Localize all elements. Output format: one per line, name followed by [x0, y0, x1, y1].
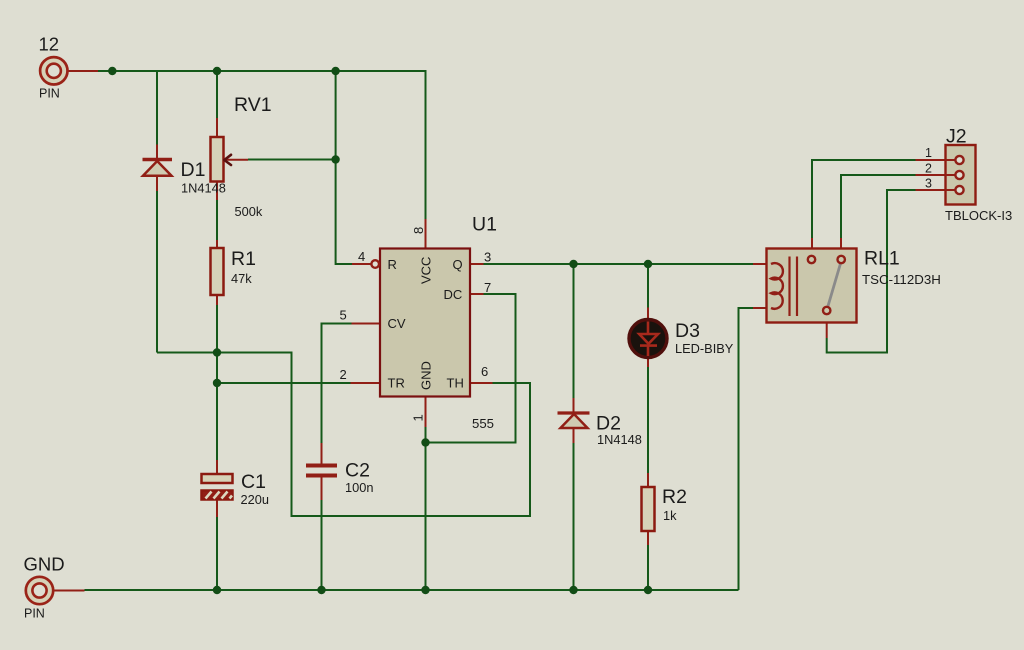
svg-text:GND: GND: [419, 361, 434, 390]
svg-text:TSC-112D3H: TSC-112D3H: [862, 272, 941, 287]
svg-text:12: 12: [39, 34, 60, 55]
svg-text:6: 6: [481, 364, 488, 379]
svg-text:220u: 220u: [241, 492, 269, 507]
svg-text:TH: TH: [447, 376, 464, 391]
svg-text:CV: CV: [388, 316, 406, 331]
svg-text:555: 555: [472, 416, 494, 431]
svg-text:VCC: VCC: [419, 257, 434, 284]
svg-text:1: 1: [411, 414, 426, 421]
svg-text:D1: D1: [181, 159, 206, 181]
svg-text:7: 7: [484, 280, 491, 295]
svg-text:Q: Q: [453, 257, 463, 272]
svg-text:LED-BIBY: LED-BIBY: [675, 341, 734, 356]
svg-text:D3: D3: [675, 320, 700, 342]
svg-text:TR: TR: [388, 376, 405, 391]
svg-text:1: 1: [925, 146, 932, 160]
svg-text:C1: C1: [241, 471, 266, 493]
svg-text:RV1: RV1: [234, 94, 272, 116]
svg-text:5: 5: [340, 308, 347, 323]
svg-text:8: 8: [411, 227, 426, 234]
svg-text:DC: DC: [444, 287, 463, 302]
svg-text:4: 4: [358, 249, 365, 264]
svg-text:3: 3: [925, 176, 932, 190]
svg-text:100n: 100n: [345, 480, 373, 495]
svg-text:C2: C2: [345, 460, 370, 482]
svg-text:47k: 47k: [231, 271, 252, 286]
svg-text:1N4148: 1N4148: [181, 181, 226, 196]
svg-text:R: R: [388, 257, 397, 272]
svg-text:U1: U1: [472, 214, 497, 236]
svg-text:PIN: PIN: [24, 607, 45, 621]
svg-text:TBLOCK-I3: TBLOCK-I3: [945, 208, 1012, 223]
svg-text:PIN: PIN: [39, 87, 60, 101]
svg-text:RL1: RL1: [864, 248, 900, 270]
svg-text:1N4148: 1N4148: [597, 432, 642, 447]
svg-text:1k: 1k: [663, 508, 677, 523]
svg-text:500k: 500k: [235, 204, 263, 219]
svg-text:R2: R2: [662, 486, 687, 508]
svg-text:R1: R1: [231, 248, 256, 270]
svg-text:J2: J2: [946, 126, 967, 148]
svg-text:GND: GND: [24, 554, 65, 575]
svg-text:2: 2: [340, 367, 347, 382]
svg-text:3: 3: [484, 250, 491, 265]
svg-text:2: 2: [925, 161, 932, 175]
